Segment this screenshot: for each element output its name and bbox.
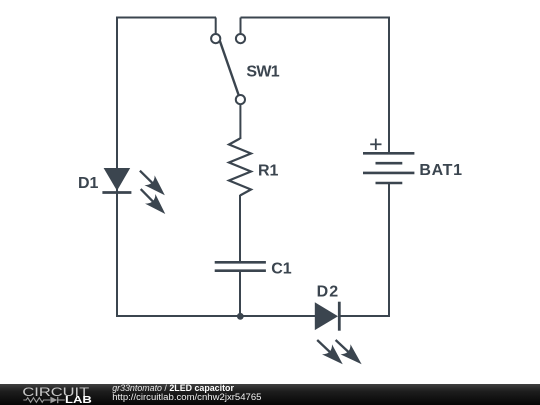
logo schematic diode xyxy=(50,397,57,403)
D2 cathode bar xyxy=(338,302,341,331)
resistor R1 xyxy=(229,139,251,196)
svg-text:R1: R1 xyxy=(258,163,279,180)
wire capacitor to junction xyxy=(239,271,241,317)
wire bottom left segment xyxy=(116,315,316,317)
battery plus sign xyxy=(370,139,381,150)
battery BAT1 xyxy=(363,153,414,183)
LED D2 xyxy=(315,302,338,330)
svg-text:LAB: LAB xyxy=(65,395,92,405)
capacitor C1 xyxy=(215,262,266,270)
wire top-right segment xyxy=(241,17,391,19)
wire right vertical lower xyxy=(388,183,390,317)
svg-text:C1: C1 xyxy=(271,261,292,278)
D1 cathode bar xyxy=(102,191,131,194)
wire switch to resistor xyxy=(239,104,241,139)
wire switch left stub xyxy=(215,18,217,34)
D2 light arrow 2 xyxy=(331,335,367,370)
svg-text:http://circuitlab.com/cnhw2jxr: http://circuitlab.com/cnhw2jxr54765 xyxy=(112,392,261,403)
junction node xyxy=(237,313,244,320)
svg-text:BAT1: BAT1 xyxy=(419,162,462,179)
D2 light arrow 1 xyxy=(312,335,347,369)
D1 light arrow 2 xyxy=(136,184,171,219)
LED D1 xyxy=(104,168,131,191)
wire resistor to capacitor xyxy=(239,195,241,262)
wire top-left segment xyxy=(116,17,216,19)
svg-text:D2: D2 xyxy=(317,283,339,300)
switch SW1 xyxy=(211,34,245,104)
svg-text:D1: D1 xyxy=(78,175,99,192)
wire left vertical xyxy=(116,17,118,318)
wire switch right stub xyxy=(240,18,242,34)
D1 light arrow 1 xyxy=(135,166,170,201)
logo schematic resistor xyxy=(23,398,50,403)
wire right vertical upper xyxy=(388,17,390,154)
svg-text:SW1: SW1 xyxy=(246,63,279,80)
footer bar xyxy=(0,384,540,405)
wire bottom right segment xyxy=(339,315,390,317)
